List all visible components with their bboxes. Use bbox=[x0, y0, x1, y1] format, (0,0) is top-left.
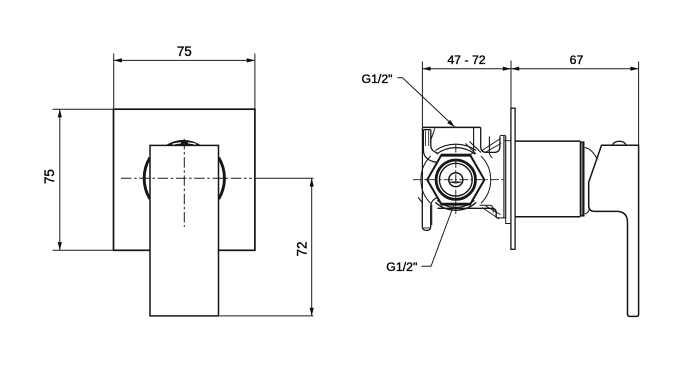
svg-text:G1/2": G1/2" bbox=[362, 72, 393, 86]
svg-text:G1/2": G1/2" bbox=[386, 260, 417, 274]
svg-text:67: 67 bbox=[570, 53, 584, 67]
svg-text:47 - 72: 47 - 72 bbox=[447, 53, 485, 67]
svg-text:75: 75 bbox=[42, 169, 57, 184]
svg-text:72: 72 bbox=[294, 241, 309, 256]
svg-text:75: 75 bbox=[177, 44, 192, 59]
